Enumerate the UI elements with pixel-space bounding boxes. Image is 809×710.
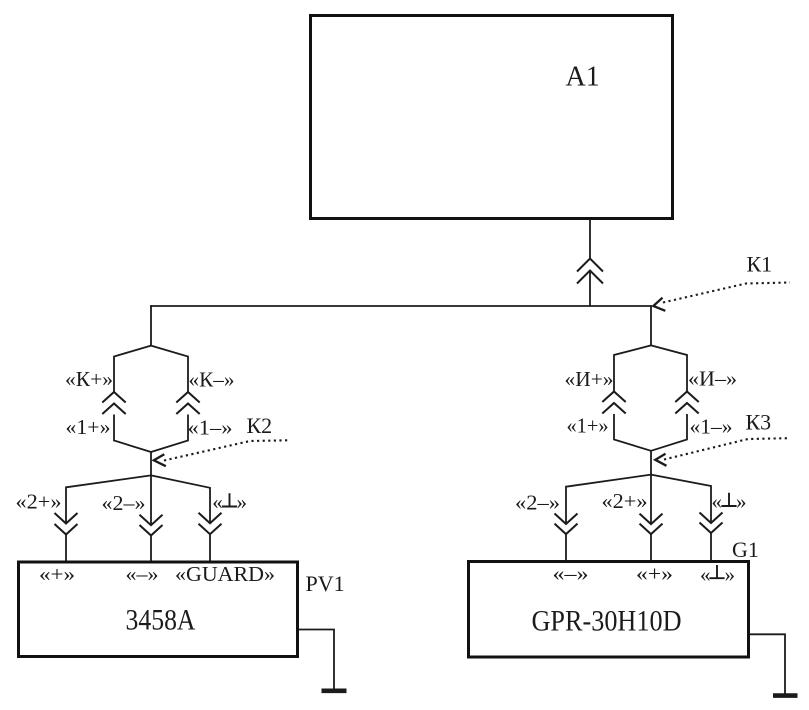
svg-text:»: » (725, 563, 736, 587)
wire K2 socket left (114, 415, 151, 453)
device G1 box (469, 562, 749, 658)
wire branch to right «⊥» (651, 475, 711, 523)
svg-text:«И+»: «И+» (565, 367, 614, 391)
wire branch to «2-» (150, 475, 152, 525)
callout arrow K1 (663, 283, 790, 303)
callout arrow K2 (164, 440, 288, 460)
ground wire PV1 (299, 630, 334, 691)
connector K3 plug left branch wire (614, 345, 651, 391)
wire branch to right «2-» (566, 475, 651, 524)
connector «2-» chevrons (140, 515, 163, 526)
connector K2 contact «К-» chevrons (176, 392, 199, 403)
callout arrow K3 (664, 438, 788, 459)
svg-text:«: « (700, 563, 711, 587)
wire branch to right «2+» (650, 475, 652, 524)
wire branch to left «⊥» (151, 475, 210, 523)
connector K2 plug left branch wire (114, 346, 151, 392)
svg-text:К2: К2 (247, 413, 273, 438)
svg-text:К1: К1 (747, 252, 773, 277)
svg-text:»: » (237, 490, 248, 514)
svg-text:»: » (736, 490, 747, 514)
svg-text:PV1: PV1 (306, 571, 345, 596)
connector right «2-» chevrons (555, 514, 578, 525)
svg-text:«–»: «–» (553, 562, 589, 586)
wire «⊥» to PV1 (209, 534, 211, 562)
connector K3 plug right branch wire (651, 345, 687, 391)
wire «2+» to G1 (650, 534, 652, 562)
connector right «⊥» chevrons (700, 513, 723, 524)
wire «⊥» to G1 (710, 533, 712, 562)
wire bus right drop (650, 305, 652, 345)
device A1 box (311, 16, 673, 219)
connector K2 contact «К+» chevrons (102, 392, 125, 403)
wire connector K1 to bus (589, 271, 591, 307)
wire branch to «2+» (66, 475, 151, 523)
svg-text:«1–»: «1–» (188, 416, 233, 440)
svg-text:«2+»: «2+» (16, 490, 62, 514)
ground wire G1 (750, 634, 785, 694)
wire main bus horizontal (150, 305, 652, 307)
svg-text:3458A: 3458A (126, 604, 196, 637)
svg-text:«К–»: «К–» (189, 368, 235, 392)
device PV1 box (19, 562, 298, 657)
svg-text:«2–»: «2–» (515, 491, 560, 515)
svg-text:«1+»: «1+» (66, 415, 111, 439)
svg-text:GPR-30H10D: GPR-30H10D (532, 605, 682, 638)
svg-text:К3: К3 (746, 410, 772, 435)
svg-text:«: « (212, 490, 223, 514)
connector left «⊥» chevrons (199, 513, 222, 524)
connector K3 contact «И-» chevrons (675, 392, 698, 403)
wire K3 socket right (651, 414, 687, 451)
connector K3 contact «И+» chevrons (602, 392, 625, 403)
svg-text:«2+»: «2+» (602, 489, 648, 513)
svg-text:«К+»: «К+» (65, 367, 113, 391)
wire K3 socket left (614, 414, 651, 451)
connector K1 plug chevron (577, 259, 603, 272)
connector K1 socket chevron (577, 271, 603, 284)
connector «2+» chevrons (55, 513, 78, 524)
svg-text:«+»: «+» (636, 562, 673, 586)
svg-text:«1–»: «1–» (690, 415, 733, 439)
svg-text:G1: G1 (732, 537, 759, 562)
svg-text:«–»: «–» (126, 562, 159, 586)
svg-text:«: « (712, 490, 723, 514)
ground symbol G1 (773, 693, 798, 698)
wire «2-» to G1 (565, 534, 567, 562)
wire bus left drop (150, 305, 152, 346)
wire K2 to fan node (150, 452, 152, 476)
connector K2 plug right branch wire (151, 346, 188, 392)
wire «2+» to PV1 (65, 535, 67, 563)
ground symbol PV1 (322, 688, 347, 693)
svg-text:«2–»: «2–» (102, 491, 146, 515)
wire A1 to connector K1 (589, 219, 591, 259)
wire K2 socket right (151, 415, 188, 453)
svg-text:«1+»: «1+» (567, 414, 609, 438)
svg-text:A1: A1 (566, 62, 600, 93)
svg-text:«И–»: «И–» (688, 367, 737, 391)
wire «2-» to PV1 (150, 536, 152, 563)
svg-text:«GUARD»: «GUARD» (175, 562, 275, 586)
svg-text:«+»: «+» (39, 562, 75, 586)
wire K3 to fan node (650, 451, 652, 475)
connector right «2+» chevrons (640, 514, 663, 525)
